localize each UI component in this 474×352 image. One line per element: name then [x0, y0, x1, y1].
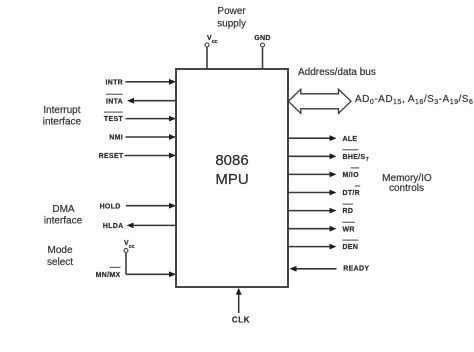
- DT/R output: [288, 186, 360, 197]
- WR output: [288, 222, 355, 233]
- RESET input: [99, 153, 176, 161]
- CLK input: [232, 288, 250, 325]
- address/data bus label: [298, 67, 376, 78]
- svg-text:Mode: Mode: [47, 245, 72, 256]
- svg-text:MPU: MPU: [215, 171, 248, 188]
- svg-text:8086: 8086: [215, 152, 248, 169]
- svg-text:controls: controls: [389, 183, 424, 194]
- svg-text:Address/data bus: Address/data bus: [298, 67, 376, 78]
- svg-text:M/IO: M/IO: [343, 172, 360, 179]
- svg-text:cc: cc: [212, 39, 218, 45]
- svg-text:RD: RD: [343, 208, 354, 215]
- svg-text:MN/MX: MN/MX: [96, 272, 121, 279]
- svg-text:WR: WR: [343, 226, 355, 233]
- svg-text:HOLD: HOLD: [100, 203, 121, 210]
- NMI input: [109, 134, 176, 142]
- svg-text:Power: Power: [217, 6, 246, 17]
- svg-text:INTA: INTA: [106, 98, 123, 105]
- svg-text:READY: READY: [343, 266, 369, 273]
- svg-text:NMI: NMI: [109, 135, 123, 142]
- svg-text:interface: interface: [44, 216, 83, 227]
- MN/MX input: [96, 267, 176, 279]
- HLDA output: [103, 223, 176, 231]
- svg-text:ALE: ALE: [343, 136, 358, 143]
- svg-text:GND: GND: [254, 35, 270, 42]
- interrupt interface label: [43, 105, 82, 128]
- memory/IO controls label: [382, 173, 432, 194]
- svg-text:Interrupt: Interrupt: [43, 105, 80, 116]
- ALE output: [288, 135, 357, 143]
- HOLD input: [100, 203, 176, 211]
- svg-text:7: 7: [366, 157, 369, 163]
- M/IO output: [288, 168, 359, 179]
- 8086 MPU block: [176, 69, 288, 287]
- RD output: [288, 204, 353, 215]
- READY input: [290, 266, 370, 273]
- BHE/S7 output: [288, 150, 369, 163]
- svg-text:interface: interface: [43, 117, 82, 128]
- svg-text:select: select: [47, 257, 73, 268]
- power supply label: [217, 6, 246, 30]
- Vcc terminal (top): [205, 35, 218, 69]
- svg-text:CLK: CLK: [232, 316, 250, 325]
- svg-text:RESET: RESET: [99, 153, 124, 160]
- TEST input: [104, 112, 176, 123]
- svg-text:BHE/S: BHE/S: [343, 154, 366, 161]
- INTR input: [105, 79, 176, 87]
- svg-text:supply: supply: [217, 19, 246, 30]
- GND terminal (top): [254, 35, 270, 69]
- bus signals label AD0-AD15, A16/S3-A19/S6: [355, 94, 473, 106]
- INTA output: [106, 94, 176, 105]
- Vcc terminal (mode select): [124, 240, 135, 274]
- svg-text:cc: cc: [129, 244, 135, 250]
- svg-text:HLDA: HLDA: [103, 223, 124, 230]
- address/data bus arrow: [288, 89, 351, 113]
- svg-text:INTR: INTR: [105, 79, 123, 86]
- svg-text:DMA: DMA: [52, 204, 75, 215]
- mode select label: [47, 245, 73, 268]
- svg-text:TEST: TEST: [104, 116, 124, 123]
- svg-text:DT/R: DT/R: [343, 190, 361, 197]
- DEN output: [288, 240, 358, 251]
- svg-text:DEN: DEN: [343, 244, 359, 251]
- DMA interface label: [44, 204, 83, 227]
